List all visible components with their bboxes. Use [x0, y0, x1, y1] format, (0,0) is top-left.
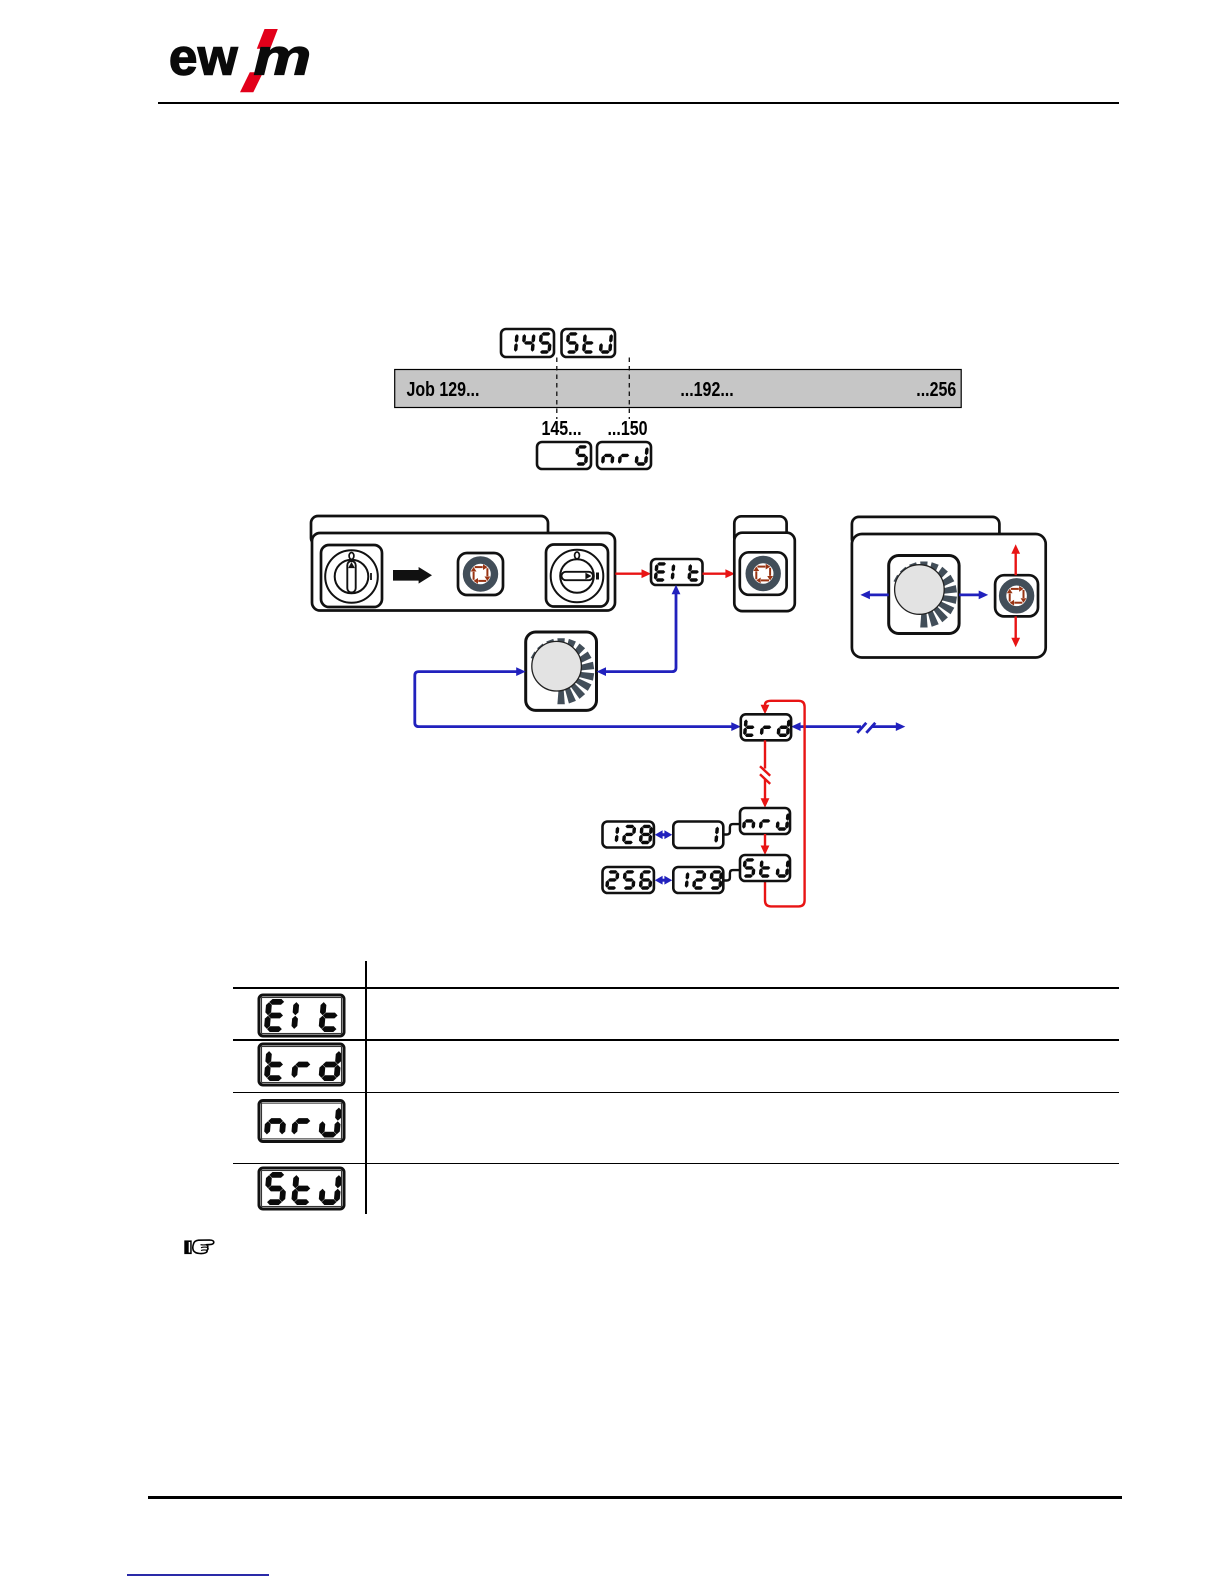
- svg-text:...192...: ...192...: [680, 378, 733, 400]
- svg-text:...256: ...256: [916, 378, 956, 400]
- svg-text:145...: 145...: [541, 417, 581, 439]
- svg-text:Job 129...: Job 129...: [407, 378, 480, 400]
- svg-text:...150: ...150: [607, 417, 647, 439]
- svg-text:m: m: [254, 29, 312, 86]
- svg-text:ew: ew: [169, 29, 238, 86]
